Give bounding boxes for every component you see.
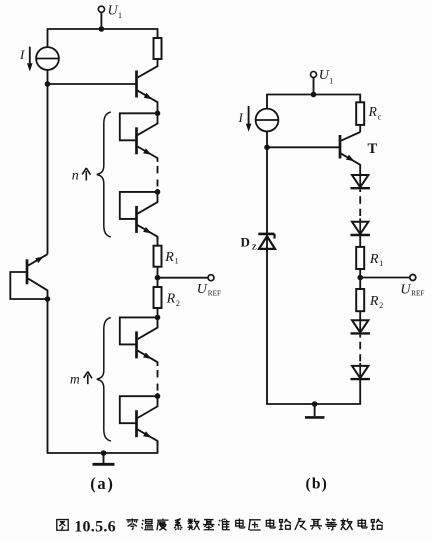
svg-text:I: I [19,47,25,62]
svg-text:U: U [108,4,119,19]
svg-text:n: n [72,169,79,184]
svg-text:U: U [319,68,330,83]
svg-text:REF: REF [411,290,424,298]
svg-text:c: c [378,112,382,122]
svg-text:T: T [368,141,378,157]
svg-text:U: U [197,282,208,297]
svg-text:U: U [400,282,411,297]
svg-text:2: 2 [379,301,383,310]
svg-text:I: I [238,110,244,125]
svg-text:1: 1 [329,76,333,85]
svg-text:m: m [70,372,80,387]
svg-text:(b): (b) [306,476,329,493]
svg-text:Z: Z [252,243,257,252]
svg-text:REF: REF [208,290,221,298]
svg-text:R: R [369,252,379,267]
svg-text:R: R [369,294,379,309]
svg-text:R: R [166,291,176,306]
svg-text:D: D [241,234,250,249]
svg-text:10.5.6: 10.5.6 [74,518,116,535]
svg-text:1: 1 [118,11,122,20]
svg-text:1: 1 [175,256,179,265]
svg-text:R: R [368,104,378,119]
svg-text:2: 2 [176,299,180,308]
svg-text:(a): (a) [90,474,114,493]
svg-text:R: R [164,250,174,265]
svg-text:1: 1 [379,259,383,268]
